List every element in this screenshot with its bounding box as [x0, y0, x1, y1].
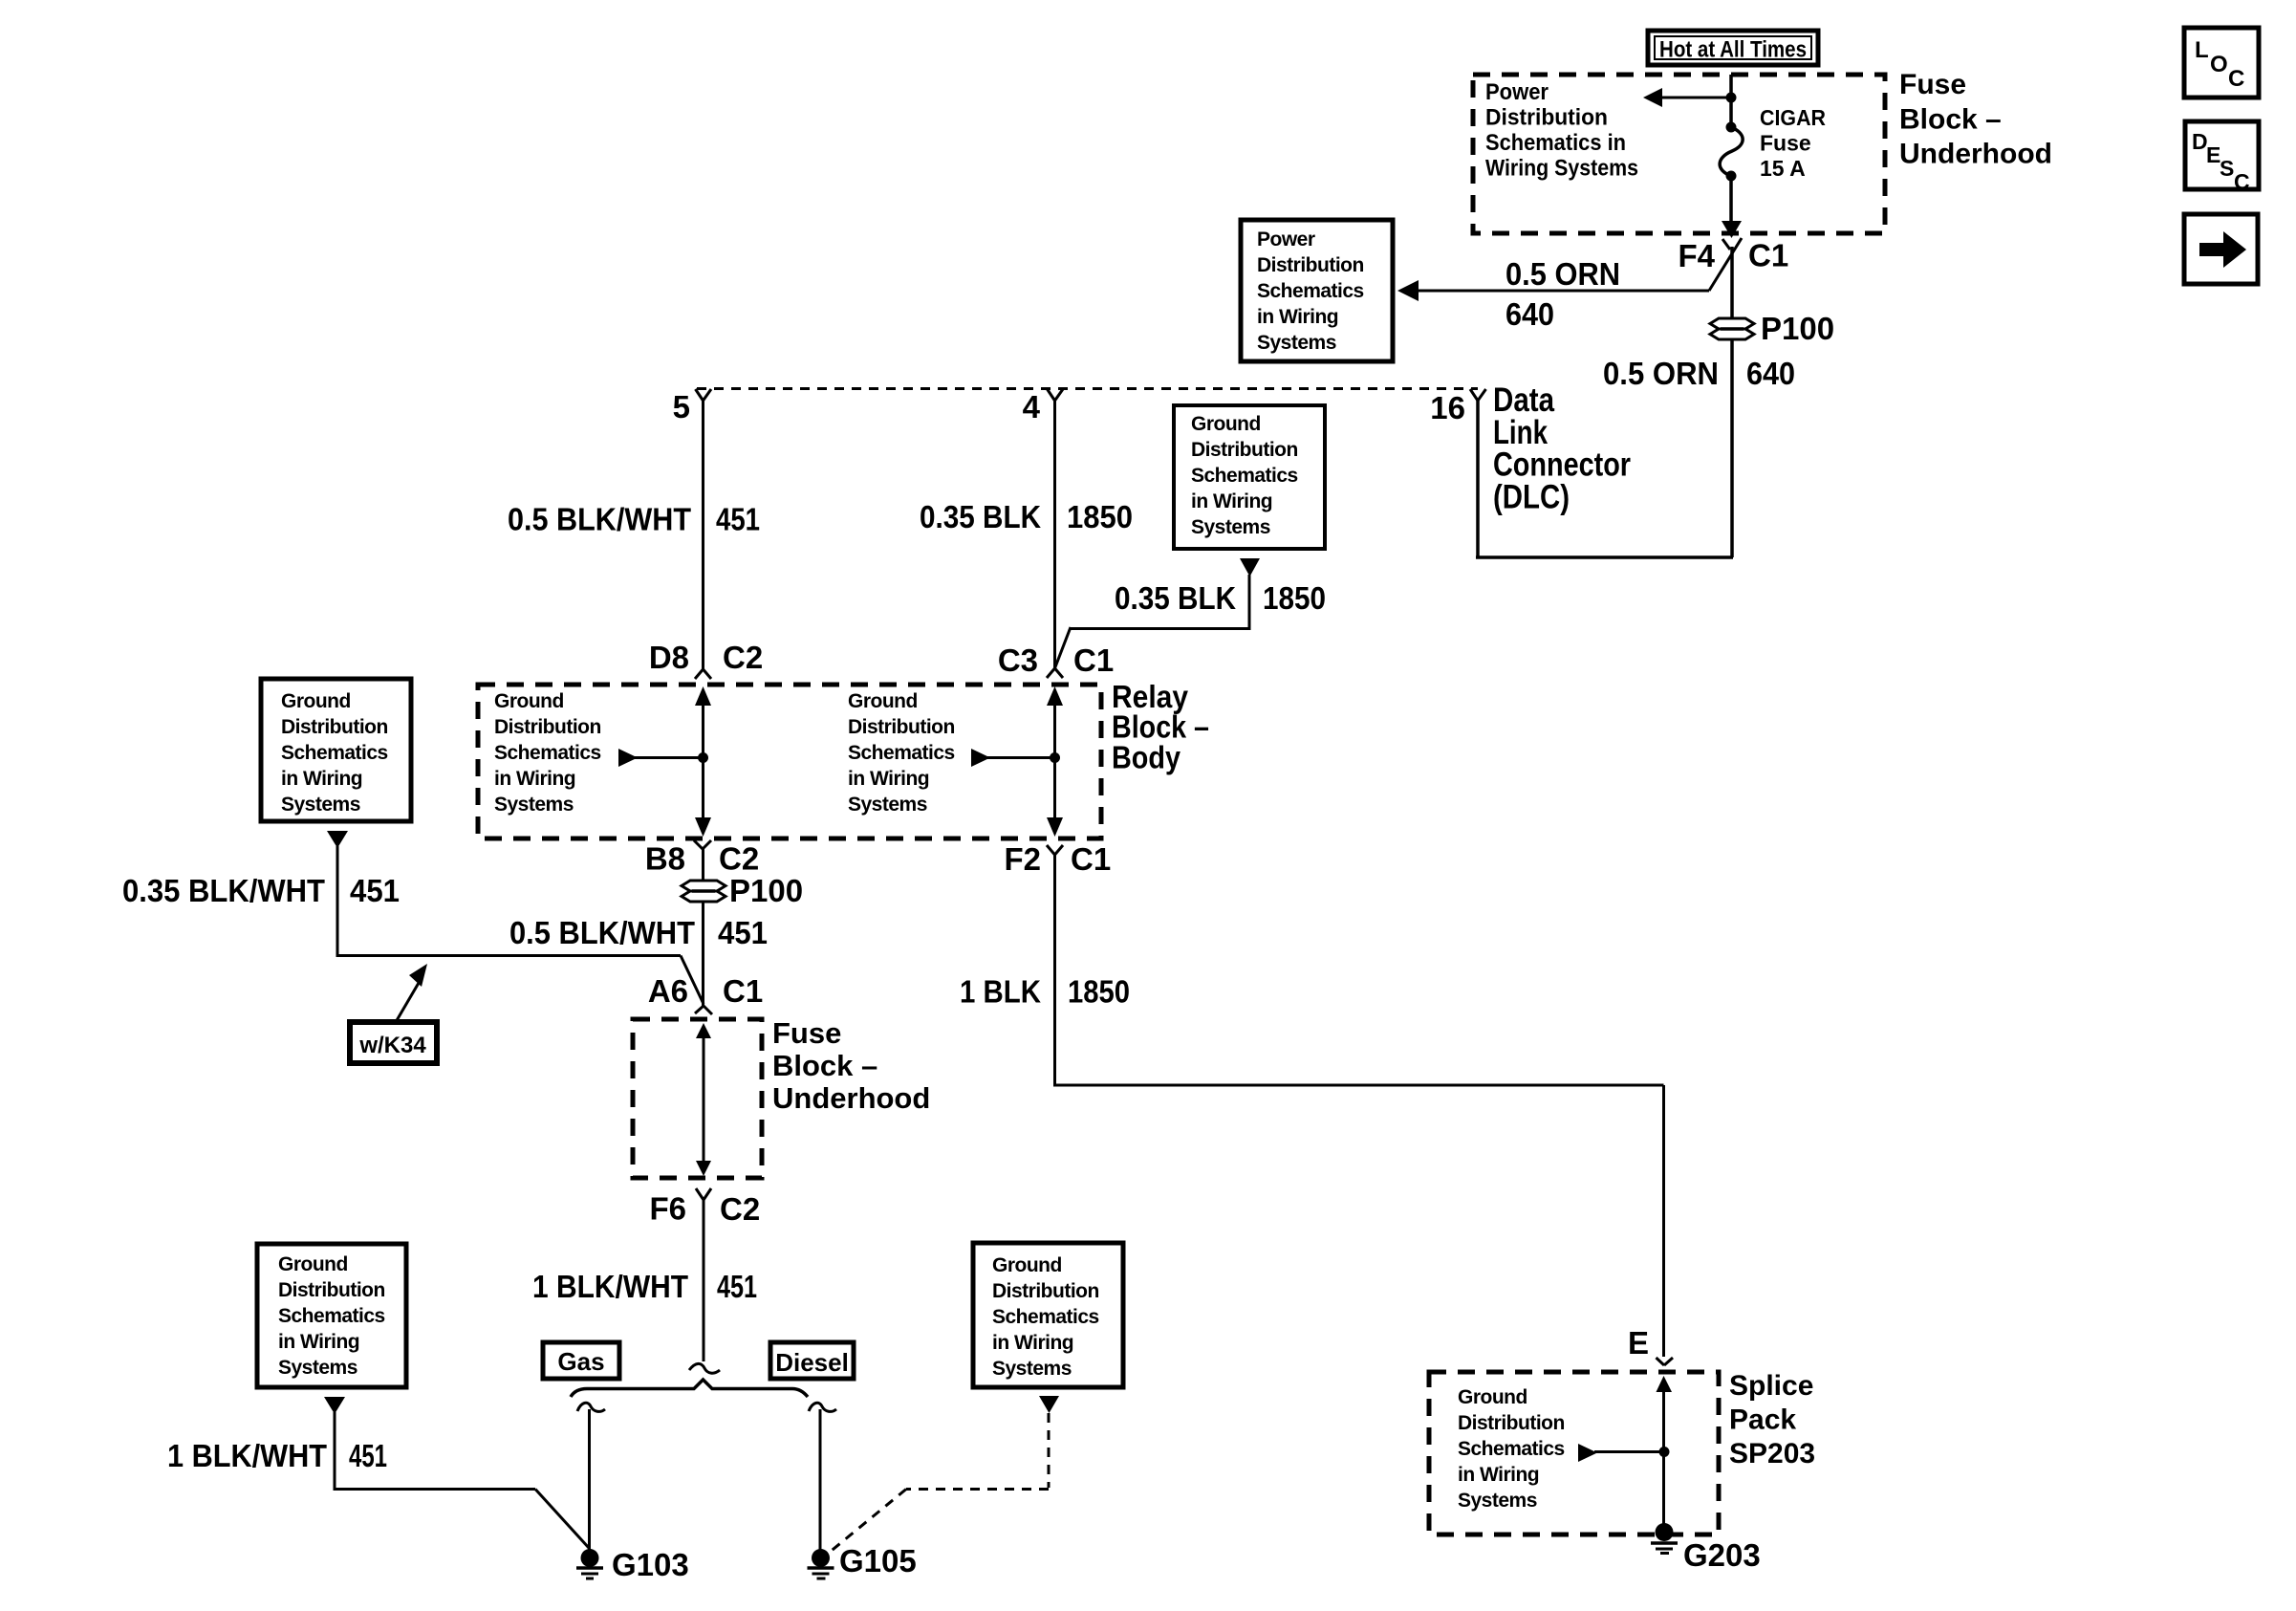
svg-text:B8: B8: [645, 841, 685, 877]
svg-text:Power: Power: [1257, 229, 1315, 250]
svg-text:Distribution: Distribution: [278, 1279, 385, 1301]
connector D8 / C2: [649, 640, 763, 679]
svg-text:451: 451: [717, 1269, 757, 1304]
svg-text:Systems: Systems: [1191, 516, 1270, 538]
DLC title: [1493, 381, 1631, 516]
svg-text:Diesel: Diesel: [775, 1348, 849, 1377]
svg-text:Splice: Splice: [1729, 1370, 1813, 1402]
junction node: [1726, 93, 1737, 103]
svg-text:in Wiring: in Wiring: [1191, 490, 1272, 512]
svg-text:Distribution: Distribution: [1485, 105, 1608, 131]
svg-text:5: 5: [673, 389, 690, 425]
pin 5 connector: [673, 389, 711, 425]
svg-text:SP203: SP203: [1729, 1438, 1815, 1469]
svg-text:Gas: Gas: [557, 1347, 604, 1376]
wire from hot feed: [1729, 75, 1733, 97]
svg-text:Power: Power: [1485, 79, 1549, 105]
wire 0.35 BLK/WHT 451 branch: [122, 846, 704, 1004]
power distribution schematics box: [1241, 220, 1393, 361]
desc legend box: [2185, 121, 2259, 194]
svg-text:Wiring Systems: Wiring Systems: [1485, 156, 1638, 182]
svg-text:in Wiring: in Wiring: [1257, 306, 1338, 328]
svg-text:0.5 ORN: 0.5 ORN: [1505, 256, 1620, 292]
svg-text:in Wiring: in Wiring: [281, 768, 362, 790]
fuse block underhood title: [1899, 69, 2052, 170]
ref triangle below left ground box: [327, 831, 348, 848]
ground distribution note (inside splice pack): [1458, 1386, 1565, 1512]
svg-text:F2: F2: [1004, 841, 1041, 877]
fuse block underhood (lower) title: [772, 1016, 930, 1115]
ground distribution schematics box (lower right): [973, 1243, 1123, 1387]
svg-text:C1: C1: [723, 973, 763, 1009]
svg-text:Systems: Systems: [1458, 1490, 1537, 1512]
pin 4 connector: [1023, 389, 1063, 425]
inline connector P100 (lower): [682, 873, 803, 908]
wire 1 BLK/WHT 451 (F6 down): [532, 1200, 757, 1373]
svg-text:C2: C2: [719, 841, 759, 877]
diesel ground wire: [809, 1403, 836, 1551]
ref arrow inside splice pack: [1578, 1444, 1670, 1462]
split brace gas/diesel: [571, 1380, 808, 1397]
ground G203: [1651, 1523, 1761, 1573]
svg-text:451: 451: [718, 915, 768, 950]
svg-text:Ground: Ground: [278, 1253, 348, 1275]
svg-text:w/K34: w/K34: [358, 1033, 426, 1058]
svg-text:Systems: Systems: [848, 794, 927, 816]
power distribution note inside fuse block: [1485, 79, 1638, 182]
svg-text:Fuse: Fuse: [1899, 69, 1966, 100]
svg-text:Schematics: Schematics: [1458, 1438, 1565, 1460]
svg-text:Schematics: Schematics: [1191, 465, 1298, 487]
ref arrow left to wire: [618, 749, 708, 767]
svg-text:Distribution: Distribution: [1458, 1412, 1565, 1434]
svg-text:1 BLK/WHT: 1 BLK/WHT: [532, 1269, 688, 1304]
svg-text:Systems: Systems: [1257, 332, 1336, 354]
svg-text:Systems: Systems: [278, 1357, 357, 1379]
wire 0.5 BLK/WHT 451 (pin 5 to D8): [508, 401, 760, 660]
wire 0.5 ORN 640 with arrow to power dist box: [1397, 238, 1742, 332]
wire 0.5 BLK/WHT 451 (B8 to A6): [509, 902, 768, 1006]
svg-text:F6: F6: [649, 1191, 686, 1227]
svg-text:Hot at All Times: Hot at All Times: [1659, 37, 1807, 63]
svg-text:Systems: Systems: [494, 794, 574, 816]
svg-text:640: 640: [1505, 296, 1554, 332]
ground G105: [808, 1543, 917, 1578]
svg-text:Distribution: Distribution: [848, 716, 955, 738]
svg-text:A6: A6: [648, 973, 688, 1009]
svg-text:16: 16: [1430, 390, 1465, 425]
svg-text:451: 451: [349, 1438, 387, 1473]
loc legend box: [2184, 28, 2259, 98]
svg-text:in Wiring: in Wiring: [992, 1332, 1073, 1354]
forward arrow legend box: [2184, 214, 2258, 284]
relay block body dashed box: [478, 685, 1101, 838]
connector F2 / C1: [1004, 841, 1111, 877]
svg-text:Ground: Ground: [848, 690, 918, 712]
svg-text:Schematics: Schematics: [278, 1305, 385, 1327]
svg-text:Distribution: Distribution: [1257, 254, 1364, 276]
svg-text:Pack: Pack: [1729, 1404, 1796, 1436]
wire 0.35 BLK 1850 (pin 4 to C3): [920, 401, 1133, 668]
svg-text:O: O: [2210, 52, 2228, 77]
svg-text:G103: G103: [612, 1547, 689, 1582]
svg-text:C2: C2: [720, 1191, 760, 1227]
svg-text:1850: 1850: [1067, 499, 1133, 534]
svg-text:Schematics: Schematics: [992, 1306, 1099, 1328]
cigar fuse symbol: [1720, 98, 1743, 238]
ref triangle below lower right ground box: [1039, 1396, 1059, 1413]
svg-text:1850: 1850: [1263, 580, 1326, 616]
svg-text:Ground: Ground: [992, 1254, 1062, 1276]
svg-text:Ground: Ground: [1191, 413, 1261, 435]
svg-text:Systems: Systems: [992, 1358, 1072, 1380]
splice pack SP203 dashed box: [1429, 1372, 1719, 1535]
ref triangle below mid ground box: [1240, 558, 1260, 577]
svg-text:Underhood: Underhood: [772, 1081, 930, 1115]
svg-text:0.35 BLK/WHT: 0.35 BLK/WHT: [122, 873, 325, 908]
svg-text:0.5 BLK/WHT: 0.5 BLK/WHT: [508, 502, 691, 537]
wire through relay block (column D8-B8): [695, 686, 711, 837]
svg-text:Distribution: Distribution: [494, 716, 601, 738]
svg-text:G105: G105: [839, 1543, 917, 1578]
svg-text:Body: Body: [1112, 740, 1181, 775]
svg-text:P100: P100: [1761, 311, 1834, 346]
svg-text:E: E: [1628, 1325, 1649, 1361]
gas tag box: [543, 1342, 619, 1379]
wire into splice pack: [1657, 1376, 1673, 1524]
svg-text:C1: C1: [1071, 841, 1111, 877]
svg-text:CIGAR: CIGAR: [1760, 105, 1826, 130]
ref triangle below lower left ground box: [324, 1397, 345, 1414]
svg-text:Distribution: Distribution: [1191, 439, 1298, 461]
pin 16 connector: [1430, 389, 1485, 425]
connector A6 / C1: [648, 973, 763, 1014]
splice pack label E: [1628, 1325, 1673, 1365]
svg-text:4: 4: [1023, 389, 1041, 425]
svg-text:C: C: [2228, 66, 2244, 92]
ground distribution note (right, inside relay block): [848, 690, 955, 816]
svg-text:G203: G203: [1683, 1537, 1761, 1573]
svg-text:0.35 BLK: 0.35 BLK: [920, 499, 1041, 534]
diesel tag box: [770, 1342, 854, 1379]
svg-text:L: L: [2195, 37, 2209, 63]
fuse block underhood (lower) dashed box: [633, 1019, 762, 1178]
connector C3 / C1: [998, 642, 1114, 678]
w/K34 tag box: [350, 1022, 437, 1063]
connector F6 / C2: [649, 1188, 760, 1227]
svg-text:0.35 BLK: 0.35 BLK: [1115, 580, 1236, 616]
dashed ref wire to G105: [828, 1413, 1049, 1554]
svg-text:Ground: Ground: [281, 690, 351, 712]
svg-text:C2: C2: [723, 640, 763, 675]
svg-text:Block –: Block –: [772, 1049, 877, 1082]
svg-text:451: 451: [350, 873, 400, 908]
connector F4 / C1: [1678, 238, 1788, 274]
svg-text:in Wiring: in Wiring: [494, 768, 575, 790]
ground G103: [576, 1547, 689, 1582]
svg-text:Schematics: Schematics: [848, 742, 955, 764]
svg-text:Underhood: Underhood: [1899, 139, 2052, 170]
svg-text:C3: C3: [998, 642, 1038, 678]
branch wire 0.35 BLK 1850 to ground ref: [1055, 575, 1327, 668]
svg-text:451: 451: [716, 502, 760, 537]
inline connector P100 (upper): [1710, 311, 1834, 346]
wire through relay block (column C3-F2): [1047, 686, 1063, 837]
svg-text:1 BLK: 1 BLK: [960, 974, 1041, 1010]
svg-text:in Wiring: in Wiring: [848, 768, 929, 790]
svg-text:F4: F4: [1678, 238, 1715, 273]
wire down to P100: [1730, 247, 1734, 318]
w/K34 pointer arrow: [396, 964, 427, 1022]
svg-text:Schematics: Schematics: [1257, 280, 1364, 302]
svg-text:in Wiring: in Wiring: [278, 1331, 359, 1353]
ground distribution schematics box (upper left): [261, 679, 411, 821]
connector B8 / C2: [645, 840, 759, 881]
svg-text:Block –: Block –: [1899, 104, 2002, 136]
svg-text:1 BLK/WHT: 1 BLK/WHT: [167, 1438, 327, 1473]
svg-text:1850: 1850: [1068, 974, 1130, 1010]
svg-text:0.5 BLK/WHT: 0.5 BLK/WHT: [509, 915, 695, 950]
ground distribution schematics box (mid): [1174, 405, 1325, 549]
svg-text:Systems: Systems: [281, 794, 360, 816]
hot at all times label box: [1648, 31, 1818, 65]
fuse block underhood (top) dashed box: [1473, 75, 1885, 233]
svg-text:Ground: Ground: [494, 690, 564, 712]
svg-text:(DLC): (DLC): [1493, 479, 1570, 516]
svg-text:C: C: [2234, 169, 2250, 194]
svg-text:Distribution: Distribution: [281, 716, 388, 738]
svg-text:Schematics: Schematics: [494, 742, 601, 764]
svg-text:0.5 ORN: 0.5 ORN: [1603, 356, 1719, 391]
svg-text:D8: D8: [649, 640, 689, 675]
splice pack SP203 title: [1729, 1370, 1815, 1469]
svg-text:Schematics: Schematics: [281, 742, 388, 764]
svg-text:P100: P100: [729, 873, 803, 908]
svg-text:640: 640: [1746, 356, 1795, 391]
svg-text:C1: C1: [1073, 642, 1114, 678]
svg-text:Fuse: Fuse: [772, 1016, 841, 1050]
svg-text:Distribution: Distribution: [992, 1280, 1099, 1302]
wire 0.5 ORN 640 below P100: [1603, 339, 1795, 557]
label CIGAR Fuse 15 A: [1760, 105, 1826, 181]
relay block body title: [1112, 679, 1209, 775]
svg-text:in Wiring: in Wiring: [1458, 1464, 1539, 1486]
data link connector DLC outline: [697, 389, 1733, 559]
arrow to power distribution note: [1643, 88, 1731, 107]
ground distribution note (left, inside relay block): [494, 690, 601, 816]
svg-text:C1: C1: [1748, 238, 1788, 273]
svg-text:Ground: Ground: [1458, 1386, 1527, 1408]
gas ground wire: [577, 1403, 605, 1551]
svg-text:Fuse: Fuse: [1760, 131, 1811, 156]
svg-text:15 A: 15 A: [1760, 156, 1806, 181]
svg-text:Schematics in: Schematics in: [1485, 130, 1626, 156]
wire 1 BLK/WHT 451 to G103: [167, 1412, 589, 1548]
ground distribution schematics box (lower left): [257, 1244, 406, 1387]
wire 1 BLK 1850 (F2 to splice pack E): [960, 855, 1664, 1357]
svg-text:S: S: [2220, 156, 2234, 181]
wire through lower fuse block: [696, 1023, 711, 1176]
ref arrow right to wire: [971, 749, 1060, 767]
